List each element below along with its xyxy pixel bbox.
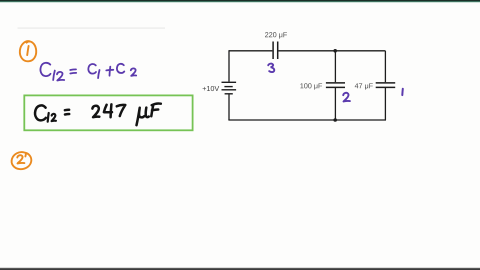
circuit wires: [228, 50, 386, 120]
capacitor C1 purple digit 1: [401, 89, 404, 95]
subscript 1: [48, 113, 49, 122]
glyph C: [117, 64, 124, 73]
wire: top left segment: [229, 50, 272, 52]
glyph C: [40, 63, 50, 76]
step marker 1 (orange circle): [20, 41, 36, 61]
capacitor C2 value label: [300, 83, 322, 89]
wire: right branch upper: [384, 51, 386, 82]
digit 2: [92, 106, 99, 117]
subscript 2: [52, 114, 56, 121]
capacitor C3 purple digit 3: [268, 64, 274, 72]
capacitor C1 value label: [355, 83, 373, 89]
node junction bottom: [333, 118, 337, 122]
glyph C: [35, 105, 46, 120]
step marker 1 digit: [27, 46, 28, 55]
digit 7: [117, 105, 126, 116]
plus sign: [106, 67, 113, 76]
capacitor C3 value label: [265, 32, 287, 38]
wire: bottom: [228, 119, 386, 121]
subscript 1: [53, 71, 55, 80]
wire: top right segment: [278, 50, 385, 52]
handwritten formula C12 = C1 + C2 (purple): [40, 63, 136, 81]
wire: left side lower: [228, 94, 230, 120]
faint divider line: [18, 27, 166, 30]
small tick: [24, 154, 27, 156]
capacitor C2 plates (100 uF, middle branch): [326, 83, 345, 88]
subscript 2: [131, 68, 136, 76]
wire: middle branch lower: [334, 88, 336, 120]
handwritten answer C12 = 247 uF (black): [35, 103, 161, 125]
wire: left side upper: [228, 50, 230, 81]
step marker 2 digit: [17, 155, 24, 163]
capacitor C1 plates (47 uF, right branch): [376, 83, 396, 88]
digit 4: [104, 104, 112, 117]
equals sign: [65, 110, 69, 115]
equals sign: [70, 69, 76, 73]
capacitor C2 purple digit 2: [343, 93, 350, 102]
subscript 2: [57, 72, 64, 81]
battery V1 label +10V: [203, 86, 220, 91]
wire: right branch lower: [384, 88, 386, 120]
glyph C: [88, 64, 96, 74]
step marker 2 (orange circle): [12, 152, 32, 169]
glyph F: [151, 103, 161, 116]
capacitor C3 plates (220 uF, series): [273, 42, 278, 60]
subscript 1: [98, 70, 99, 78]
battery V1 plates: [222, 82, 237, 94]
wire: middle branch upper: [334, 51, 336, 82]
bottom edge dark band: [0, 268, 480, 270]
answer box (green rectangle): [24, 95, 192, 130]
mu: [137, 108, 149, 126]
top edge dark band: [0, 0, 480, 1]
node junction top: [333, 49, 337, 53]
